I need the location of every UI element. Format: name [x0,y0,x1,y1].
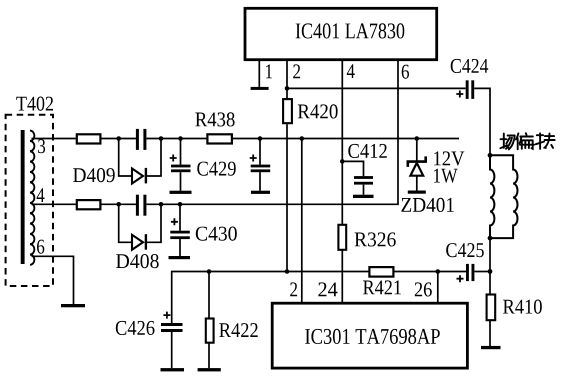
resistor R421 [363,267,401,294]
inductor yoke left winding [490,155,494,238]
node R420 bottom rail junction [285,269,290,274]
transformer T402 dashed box [6,97,53,287]
wire pin26 down [437,272,439,304]
node yoke bottom junction [488,236,493,241]
resistor R410 [487,295,542,321]
wire R438 to right stub end [233,138,459,140]
wire cap to R438 [146,138,206,140]
wire C424 to right corner [474,88,490,155]
capacitor C412 [342,144,387,198]
node yoke top junction [488,153,493,158]
wire C425 to right vertical [474,271,490,273]
pin 6 label T402 [37,240,44,254]
pin 4 label IC401 [347,64,355,78]
resistor R422 [198,272,258,372]
capacitor C426 [116,272,184,372]
node C429 top junction [178,136,183,141]
resistor (unlabeled) row 3 [77,134,101,143]
capacitor C425 [446,243,484,282]
wire R420 down to bottom rail [286,124,288,271]
wire IC401 pin4 / R326 line [341,60,343,225]
wire R326 to IC301 pin24 [341,250,343,303]
ground bar pin 1 [251,87,269,90]
node ZD401 top junction [415,136,420,141]
wire R410 to ground [489,320,491,346]
node D409 left junction [116,136,121,141]
resistor (unlabeled) row 4 [77,200,101,209]
diode D409 [73,139,161,184]
wire T402 pin3 tap [32,138,76,140]
wire T402 pin4 tap [32,203,76,205]
wire T402 pin6 tap to ground [32,256,74,304]
node line B top junction [300,136,305,141]
pin 3 label T402 [38,139,45,153]
wire IC401 pin 1 down [258,60,260,87]
transformer core [21,130,25,264]
op-amp U2 : IC301 TA7698AP box [272,303,467,368]
capacitor (series, unlabeled) row 4 [136,195,139,216]
transformer winding [30,131,34,265]
resistor R438 [195,112,234,143]
wire box to series cap row 3 [102,138,137,140]
wire line B (rail to IC301 pin2) [301,139,303,304]
pin 26 label IC301 [415,282,432,296]
capacitor (unlabeled, right of C429) [250,139,271,194]
wire pin2 to C424 [287,87,466,89]
wire IC401 pin 2 down [286,60,288,98]
capacitor C424 [451,59,489,99]
node C430 top junction [178,202,183,207]
pin 2 label IC401 [293,64,300,78]
node C412 junction [340,159,345,164]
inductor yoke right winding [490,155,517,238]
pin 1 label IC401 [266,64,272,78]
pin 6 label IC401 [402,65,409,79]
wire R421 to C425 [395,271,467,273]
op-amp U1 : IC401 LA7830 box [245,8,437,59]
node R422 junction [207,269,212,274]
zener diode ZD401 [401,139,464,213]
node cap260 top junction [258,136,263,141]
resistor R326 [338,225,395,250]
ground bar T402 pin6 [61,304,85,307]
wire bottom rail [171,271,369,273]
pin 2 label IC301 [290,282,297,296]
resistor R420 [283,99,338,123]
diode D408 [116,204,161,268]
label 场偏转 (field deflection) [500,133,554,149]
node C425 right junction [488,269,493,274]
ground bar R410 [481,346,501,349]
capacitor C429 [170,139,236,194]
node pin2 junction [285,86,290,91]
node D409 right junction [159,136,164,141]
pin 24 label IC301 [318,282,337,296]
wire box to series cap row 4 [102,203,137,205]
wire yoke bottom to C425 node [489,238,491,294]
capacitor (series, unlabeled) row 3 [136,129,139,150]
node pin26 junction [436,269,441,274]
node D408 right junction [159,202,164,207]
capacitor C430 [169,204,237,259]
pin 4 label T402 [37,188,45,202]
wire row4 rail to pin6 riser [146,60,398,204]
node D408 left junction [116,202,121,207]
